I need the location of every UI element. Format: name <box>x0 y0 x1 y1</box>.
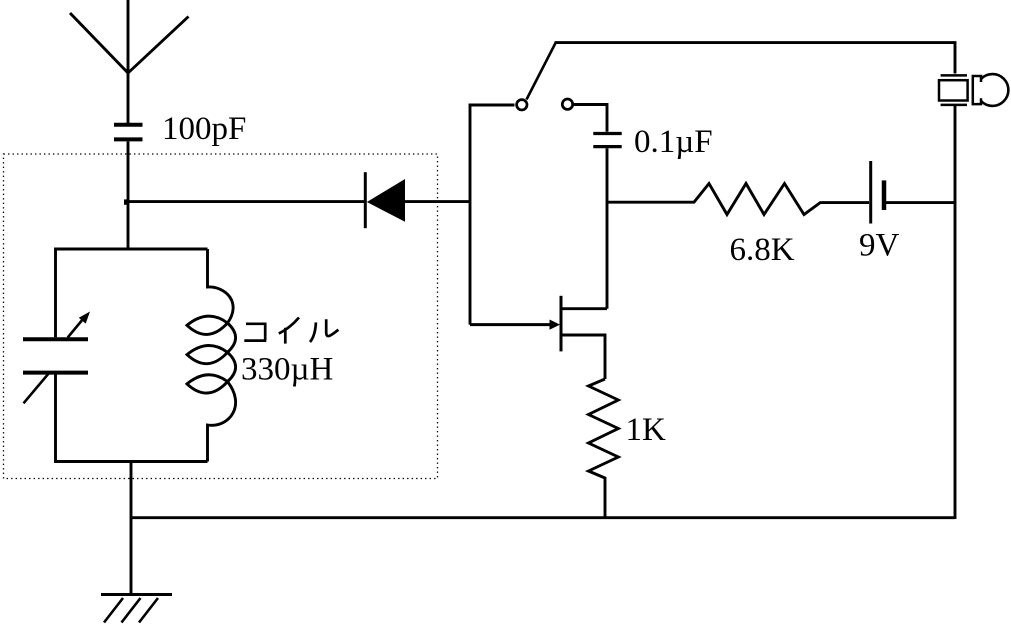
svg-text:330µH: 330µH <box>241 352 333 388</box>
svg-text:9V: 9V <box>859 228 900 264</box>
svg-text:0.1µF: 0.1µF <box>634 124 713 160</box>
svg-text:1K: 1K <box>626 412 667 448</box>
svg-text:100pF: 100pF <box>162 111 246 147</box>
svg-text:6.8K: 6.8K <box>730 232 795 268</box>
